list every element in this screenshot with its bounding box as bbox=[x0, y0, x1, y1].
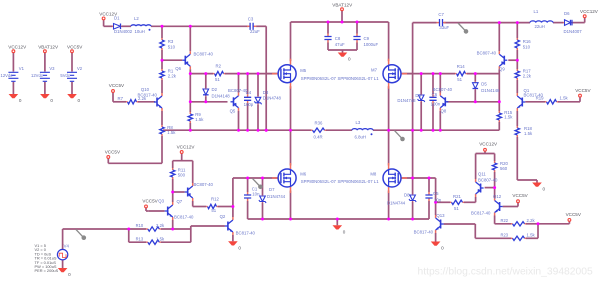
svg-text:0: 0 bbox=[348, 57, 351, 62]
svg-text:VCC5V: VCC5V bbox=[67, 44, 83, 49]
svg-text:R13: R13 bbox=[136, 236, 144, 241]
svg-text:C3: C3 bbox=[248, 17, 254, 22]
svg-text:R23: R23 bbox=[500, 232, 508, 237]
svg-text:R12: R12 bbox=[211, 196, 219, 201]
svg-text:BC817-40: BC817-40 bbox=[471, 211, 491, 216]
svg-text:12Vdc: 12Vdc bbox=[31, 73, 43, 78]
svg-text:22uF: 22uF bbox=[250, 29, 260, 34]
svg-text:D6: D6 bbox=[564, 11, 570, 16]
svg-text:2.2k: 2.2k bbox=[523, 73, 532, 78]
svg-text:PER = 200uS: PER = 200uS bbox=[35, 268, 59, 273]
svg-text:R19: R19 bbox=[536, 96, 544, 101]
svg-text:0: 0 bbox=[543, 187, 546, 192]
svg-text:R2: R2 bbox=[216, 64, 222, 69]
svg-text:51: 51 bbox=[211, 208, 216, 213]
svg-text:6.8uH: 6.8uH bbox=[355, 135, 366, 140]
svg-text:R22: R22 bbox=[500, 218, 508, 223]
svg-text:100n: 100n bbox=[431, 102, 441, 107]
svg-text:VCC12V: VCC12V bbox=[8, 44, 27, 49]
svg-text:0: 0 bbox=[441, 246, 444, 251]
svg-text:D1N4148: D1N4148 bbox=[212, 93, 231, 98]
svg-text:R21: R21 bbox=[453, 194, 461, 199]
svg-text:Q5: Q5 bbox=[230, 108, 236, 113]
svg-text:1.5k: 1.5k bbox=[524, 131, 533, 136]
svg-text:VCC5V: VCC5V bbox=[575, 88, 591, 93]
svg-text:SPP80N06S2L-07: SPP80N06S2L-07 bbox=[301, 76, 337, 81]
svg-text:Q11: Q11 bbox=[478, 172, 486, 177]
svg-text:10uH: 10uH bbox=[135, 29, 145, 34]
svg-text:D7: D7 bbox=[269, 187, 275, 192]
svg-text:1000uF: 1000uF bbox=[364, 42, 379, 47]
svg-text:47uF: 47uF bbox=[335, 42, 345, 47]
svg-text:Q2: Q2 bbox=[220, 214, 226, 219]
svg-text:1.5k: 1.5k bbox=[167, 130, 176, 135]
svg-text:VCC5V: VCC5V bbox=[566, 212, 582, 217]
svg-text:BC817-40: BC817-40 bbox=[174, 214, 194, 219]
svg-text:2.2k: 2.2k bbox=[527, 218, 536, 223]
svg-text:D5: D5 bbox=[481, 81, 487, 86]
svg-text:1.5k: 1.5k bbox=[195, 117, 204, 122]
svg-text:51: 51 bbox=[215, 77, 220, 82]
svg-text:VCC5V: VCC5V bbox=[512, 193, 528, 198]
svg-text:L3: L3 bbox=[356, 120, 361, 125]
svg-text:BC807-40: BC807-40 bbox=[477, 50, 497, 55]
svg-text:2.2k: 2.2k bbox=[156, 223, 165, 228]
svg-text:D4: D4 bbox=[415, 93, 421, 98]
svg-text:VCC5V: VCC5V bbox=[142, 198, 158, 203]
svg-text:510: 510 bbox=[523, 44, 531, 49]
svg-text:100p: 100p bbox=[244, 102, 254, 107]
svg-text:D1: D1 bbox=[114, 15, 120, 20]
svg-text:SPP80N06S2L-07 L1: SPP80N06S2L-07 L1 bbox=[338, 179, 380, 184]
svg-text:C5: C5 bbox=[433, 191, 439, 196]
svg-text:VCC12V: VCC12V bbox=[177, 144, 196, 149]
svg-text:VCC5V: VCC5V bbox=[109, 83, 125, 88]
svg-text:C6: C6 bbox=[432, 92, 438, 97]
svg-text:R36: R36 bbox=[315, 120, 323, 125]
svg-text:10n: 10n bbox=[252, 191, 260, 196]
svg-text:Q3: Q3 bbox=[158, 198, 164, 203]
svg-text:VCC12V: VCC12V bbox=[580, 9, 599, 14]
svg-text:https://blog.csdn.net/weixin_3: https://blog.csdn.net/weixin_39482005 bbox=[418, 267, 593, 278]
svg-text:D1N4748: D1N4748 bbox=[263, 95, 282, 100]
svg-text:BC807-40: BC807-40 bbox=[478, 177, 498, 182]
svg-text:Q6: Q6 bbox=[175, 66, 181, 71]
svg-text:VCC5V: VCC5V bbox=[105, 150, 121, 155]
svg-text:Q9: Q9 bbox=[499, 67, 505, 72]
svg-text:0: 0 bbox=[343, 230, 346, 235]
svg-text:M7: M7 bbox=[371, 67, 378, 72]
svg-text:R14: R14 bbox=[457, 64, 465, 69]
svg-text:M5: M5 bbox=[300, 68, 307, 73]
svg-text:1.5k: 1.5k bbox=[560, 96, 569, 101]
svg-text:51: 51 bbox=[457, 77, 462, 82]
svg-text:BC817-40: BC817-40 bbox=[236, 230, 256, 235]
svg-text:51: 51 bbox=[454, 206, 459, 211]
svg-text:C8: C8 bbox=[335, 36, 341, 41]
svg-text:R7: R7 bbox=[118, 96, 124, 101]
svg-text:V3: V3 bbox=[49, 66, 55, 71]
svg-text:V2: V2 bbox=[77, 66, 83, 71]
svg-text:22uH: 22uH bbox=[535, 24, 545, 29]
svg-text:Q13: Q13 bbox=[436, 213, 445, 218]
svg-text:D1N4002: D1N4002 bbox=[114, 29, 133, 34]
svg-text:0: 0 bbox=[78, 98, 81, 103]
svg-text:0.4R: 0.4R bbox=[314, 135, 323, 140]
svg-text:BC807-40: BC807-40 bbox=[194, 182, 214, 187]
svg-text:1.5k: 1.5k bbox=[504, 115, 513, 120]
svg-text:V1: V1 bbox=[19, 66, 25, 71]
svg-text:SPP80N06S2L-07 L1: SPP80N06S2L-07 L1 bbox=[338, 76, 380, 81]
svg-text:510: 510 bbox=[168, 44, 176, 49]
svg-text:2.2k: 2.2k bbox=[138, 96, 147, 101]
svg-text:L1: L1 bbox=[534, 9, 539, 14]
svg-text:V4: V4 bbox=[64, 244, 70, 249]
svg-text:500: 500 bbox=[178, 173, 186, 178]
svg-text:D1N4148: D1N4148 bbox=[481, 88, 500, 93]
svg-text:L2: L2 bbox=[134, 16, 139, 21]
svg-text:0: 0 bbox=[68, 272, 71, 277]
svg-text:D8: D8 bbox=[404, 193, 410, 198]
svg-text:10n: 10n bbox=[434, 198, 442, 203]
svg-text:Q10: Q10 bbox=[141, 87, 150, 92]
svg-text:Q8: Q8 bbox=[441, 108, 447, 113]
svg-text:D1N4744: D1N4744 bbox=[387, 201, 406, 206]
svg-text:0: 0 bbox=[50, 98, 53, 103]
svg-text:R10: R10 bbox=[136, 223, 144, 228]
svg-text:D1N4744: D1N4744 bbox=[267, 194, 286, 199]
svg-text:5Vdc: 5Vdc bbox=[60, 73, 70, 78]
svg-text:1.5k: 1.5k bbox=[156, 236, 165, 241]
svg-text:VBAT12V: VBAT12V bbox=[332, 2, 353, 7]
svg-text:560: 560 bbox=[500, 166, 508, 171]
svg-text:2.2k: 2.2k bbox=[168, 73, 177, 78]
svg-text:VCC12V: VCC12V bbox=[479, 142, 498, 147]
svg-text:0: 0 bbox=[238, 246, 241, 251]
svg-text:M8: M8 bbox=[370, 172, 377, 177]
svg-text:D1N4748: D1N4748 bbox=[397, 98, 416, 103]
svg-text:D2: D2 bbox=[212, 87, 218, 92]
svg-text:33uF: 33uF bbox=[439, 25, 449, 30]
svg-text:BC817-40: BC817-40 bbox=[414, 230, 434, 235]
svg-text:C7: C7 bbox=[438, 12, 444, 17]
svg-text:M6: M6 bbox=[300, 171, 307, 176]
svg-text:D1N4007: D1N4007 bbox=[564, 29, 583, 34]
svg-text:12Vdc: 12Vdc bbox=[1, 73, 13, 78]
svg-text:VBAT12V: VBAT12V bbox=[38, 44, 59, 49]
svg-text:C4: C4 bbox=[246, 90, 252, 95]
svg-text:1.5k: 1.5k bbox=[527, 232, 536, 237]
svg-text:C9: C9 bbox=[364, 36, 370, 41]
svg-text:BC807-40: BC807-40 bbox=[194, 52, 214, 57]
svg-text:SPP80N06S2L-07: SPP80N06S2L-07 bbox=[301, 179, 337, 184]
svg-text:Q12: Q12 bbox=[493, 194, 502, 199]
svg-text:0: 0 bbox=[19, 98, 22, 103]
svg-text:Q7: Q7 bbox=[176, 199, 182, 204]
